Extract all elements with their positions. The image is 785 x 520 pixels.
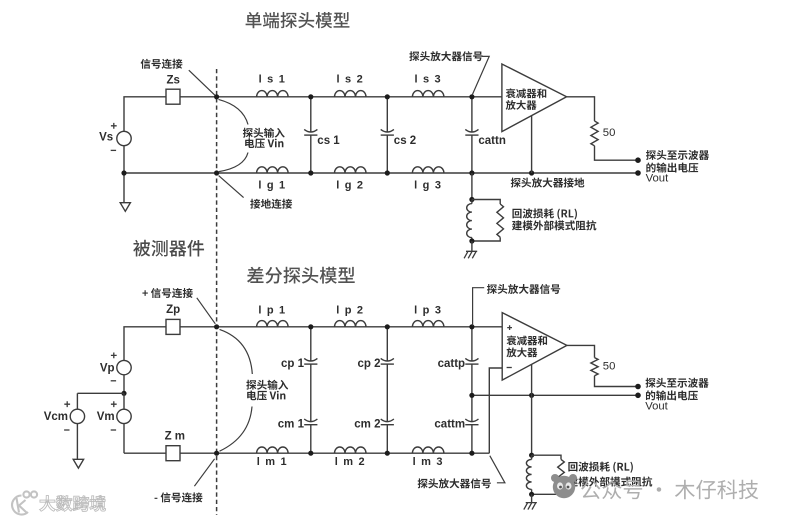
svg-text:cm 1: cm 1 <box>278 418 305 430</box>
junction (bottom rail, x=216.6) <box>214 170 219 175</box>
junction (rail2 bottom, x=387.3) <box>385 451 390 456</box>
wire: shunt stub at x=387.3 (upper) <box>386 97 388 173</box>
wire: stub to return-loss network (upper) <box>471 173 473 200</box>
svg-text:l g 1: l g 1 <box>258 179 286 191</box>
inductor RL (upper return-loss) <box>467 204 472 238</box>
svg-text:50: 50 <box>603 360 616 372</box>
voltage source Vm <box>117 409 131 423</box>
op-amp U2 衰减器和放大器 (attenuator and amplifier) <box>502 313 567 381</box>
wire: to chassis ground (lower) <box>531 494 533 502</box>
resistor 50 (lower) <box>591 358 598 376</box>
svg-text:l g 2: l g 2 <box>336 179 364 191</box>
junction (return-loss bottom, lower) <box>529 492 534 497</box>
label 回波损耗（RL）(lower) <box>568 462 633 473</box>
inductor l s 1 <box>257 91 289 97</box>
junction (mid line at catt stub) <box>469 393 474 398</box>
capacitor cattn <box>465 129 478 132</box>
inductor l p 2 <box>335 321 367 327</box>
junction (bottom rail, x=471.9) <box>469 170 474 175</box>
wire: U2 output to 50 ohm <box>567 345 595 357</box>
svg-text:cp 2: cp 2 <box>357 358 380 370</box>
wire: 50 ohm to output terminal <box>595 146 639 160</box>
label 探头输入 电压 Vin (probe input voltage, upper) <box>243 128 285 138</box>
label 放大器 (U2 line2) <box>506 347 537 357</box>
junction (bottom rail, x=387.3) <box>385 170 390 175</box>
wire: top rail Zs to amp input <box>180 96 502 98</box>
plus mark (Vcm) <box>64 401 70 407</box>
wire: bottom rail2 (Vm to Zm) <box>124 452 166 454</box>
wire: Vcm to ground arrow <box>76 424 78 460</box>
inductor l p 3 <box>412 321 444 327</box>
minus mark (Vs) <box>111 149 116 151</box>
svg-text:Zs: Zs <box>166 75 179 87</box>
brace arc lower-bottom (Vin) <box>220 407 253 452</box>
minus mark (Vp) <box>111 380 116 382</box>
svg-text:cs 2: cs 2 <box>394 135 416 147</box>
minus mark (Vm) <box>111 429 116 431</box>
inductor l m 3 <box>412 447 444 453</box>
terminal dot Vout- (upper) <box>635 170 641 176</box>
junction (bottom rail, x=531.6) <box>529 170 534 175</box>
inductor l m 1 <box>257 447 289 453</box>
label 探头放大器信号 (lower, bottom) <box>418 478 491 488</box>
svg-text:Zp: Zp <box>166 304 180 316</box>
svg-text:cs 1: cs 1 <box>317 135 340 147</box>
leader line: junction to 接地连接 <box>219 176 244 198</box>
junction (return-loss bottom, upper) <box>469 238 474 243</box>
label 回波损耗（RL）(return loss, upper) <box>512 208 577 219</box>
leader: bracket to rail2 junction <box>473 288 485 326</box>
svg-text:Vs: Vs <box>99 132 113 144</box>
impedance Zm (box) <box>166 446 180 461</box>
watermark text 大数跨境 <box>40 495 106 511</box>
label 探头输入 电压 Vin (lower) <box>246 380 288 390</box>
wire: bottom (ground) rail of single-ended model <box>124 172 638 174</box>
svg-text:cattm: cattm <box>434 418 465 430</box>
label 探头放大器接地 (probe amp ground) <box>511 178 585 188</box>
svg-text:Vp: Vp <box>100 362 115 374</box>
junction (rail2 top, x=216.6) <box>214 324 219 329</box>
voltage source Vp <box>117 360 131 374</box>
dashed boundary line between DUT and probe model <box>216 69 218 515</box>
junction (rail2 bottom, x=216.6) <box>214 451 219 456</box>
leader: - 信号连接 to junction <box>194 459 214 486</box>
label: 被测器件 (device under test) <box>133 240 204 257</box>
label 探头至示波器 (upper) <box>646 150 709 160</box>
svg-text:l s 3: l s 3 <box>414 74 441 86</box>
inductor l g 1 <box>257 167 289 173</box>
leader: dash + diagonal to top-rail junction (upper) <box>472 56 489 95</box>
wire: return-loss loop top/bottom (upper) <box>472 200 500 242</box>
svg-text:l m 2: l m 2 <box>335 456 366 468</box>
svg-text:l g 3: l g 3 <box>414 179 442 191</box>
label 的输出电压 (upper) <box>646 163 698 173</box>
watermark logo 大数跨境 (bottom-left) <box>12 491 37 514</box>
leader line: 信号连接 to junction <box>189 70 215 95</box>
op-amp U1 衰减器和放大器 (attenuator and amplifier) <box>502 64 567 132</box>
title: 差分探头模型 (differential probe model) <box>247 267 355 284</box>
ground arrow under Vcm <box>73 459 83 468</box>
voltage source Vcm <box>70 409 84 423</box>
wire: U2 minus input riser <box>489 368 502 453</box>
inductor l s 2 <box>335 91 367 97</box>
wire: Vcm top stub <box>76 393 78 409</box>
wire: shunt stub at x=310.8 (lower) <box>310 327 312 453</box>
junction (rail2 bottom, x=310.8) <box>308 451 313 456</box>
capacitor cs 1 <box>304 129 317 132</box>
svg-text:Vcm: Vcm <box>44 411 68 423</box>
brace arc upper-top (Vin) <box>219 99 249 124</box>
plus mark (Vm) <box>111 401 117 407</box>
svg-text:l s 1: l s 1 <box>259 74 286 86</box>
wire: to chassis ground (upper) <box>471 241 473 251</box>
plus mark (Vp) <box>111 353 117 359</box>
svg-text:l s 2: l s 2 <box>337 74 364 86</box>
junction (top rail, x=216.6) <box>214 94 219 99</box>
wire: rail2 Zp to amp <box>180 326 502 328</box>
junction (top rail, x=387.3) <box>385 94 390 99</box>
resistor RL (upper return-loss) <box>497 204 504 237</box>
wire: U1 output to 50 ohm <box>567 97 595 121</box>
inductor l m 2 <box>335 447 367 453</box>
chassis ground (lower) <box>524 503 537 510</box>
label 衰减器和 (U2 line1) <box>507 335 547 345</box>
inductor l g 2 <box>335 167 367 173</box>
junction (mid line at amp tap) <box>529 393 534 398</box>
junction (rail2 top, x=471.9) <box>469 324 474 329</box>
brace arc lower-top (Vin) <box>220 329 253 374</box>
ground arrow under Vs <box>120 173 130 211</box>
label - 信号连接 <box>155 492 203 502</box>
label 信号连接 (signal connection) <box>141 59 183 69</box>
title: 单端探头模型 (single-ended probe model) <box>246 12 350 28</box>
label 建模外部模式阻抗 (models external mode impedance, upper) <box>512 220 596 230</box>
minus mark (Vcm) <box>64 429 69 431</box>
svg-text:l p 1: l p 1 <box>258 305 286 317</box>
svg-text:50: 50 <box>603 127 616 139</box>
junction (Vp/Vm center) <box>121 391 126 396</box>
leader: dash + diagonal to minus riser corner <box>490 456 505 483</box>
wire: Vcm branch horizontal <box>77 392 124 394</box>
junction (return-loss top, lower) <box>529 453 534 458</box>
svg-text:l m 3: l m 3 <box>413 456 444 468</box>
junction (rail2 bottom, x=471.9) <box>469 451 474 456</box>
junction (rail2 top, x=387.3) <box>385 324 390 329</box>
chassis ground (upper) <box>464 251 477 258</box>
wire: Vm to bottom rail2 <box>123 424 125 454</box>
capacitor cp 2 <box>381 358 394 361</box>
svg-text:cattp: cattp <box>438 358 465 370</box>
junction (bottom rail, x=310.8) <box>308 170 313 175</box>
svg-text:cp 1: cp 1 <box>281 358 305 370</box>
junction (return-loss top, upper) <box>469 197 474 202</box>
capacitor cm 1 <box>304 419 317 422</box>
label + 信号连接 <box>142 288 192 298</box>
inductor l p 1 <box>257 321 289 327</box>
impedance Zs (box) <box>166 89 180 104</box>
label 探头至示波器 (lower) <box>646 378 709 388</box>
wire: return-loss loop top/bottom (lower) <box>532 455 561 494</box>
wire: center node to Vm <box>123 393 125 409</box>
svg-text:Vout: Vout <box>645 400 668 412</box>
inductor RL (lower return-loss) <box>526 459 531 489</box>
junction (top rail, x=310.8) <box>308 94 313 99</box>
wire: rail2 left (to Zp) <box>124 327 166 361</box>
resistor 50 (upper) <box>591 121 598 146</box>
resistor RL (lower return-loss) <box>558 459 565 490</box>
label 衰减器和 (U1 line1) <box>506 88 546 98</box>
minus mark (U2 input) <box>507 367 512 369</box>
wire: U2 ground tap <box>531 365 533 456</box>
voltage source Vs <box>117 131 131 145</box>
terminal dot Vout+ (upper) <box>635 157 641 163</box>
capacitor cattm <box>465 419 478 422</box>
leader: + 信号连接 to junction <box>197 298 216 324</box>
junction (top rail, x=471.9) <box>469 94 474 99</box>
wire: amp-common mid line (lower) <box>472 394 638 396</box>
inductor l s 3 <box>412 91 444 97</box>
label 接地连接 (ground connection) <box>250 199 292 209</box>
plus mark (Vs) <box>111 123 117 129</box>
junction (rail2 top, x=310.8) <box>308 324 313 329</box>
junction (bottom rail, x=124) <box>121 170 126 175</box>
wire: shunt stub at x=471.9 (lower) <box>471 327 473 453</box>
wire: U1 ground tap to bottom rail <box>531 116 533 173</box>
label 放大器 (U1 line2) <box>506 100 537 110</box>
svg-text:Z m: Z m <box>165 430 185 442</box>
wire: shunt stub at x=471.9 (upper) <box>471 97 473 173</box>
plus mark (U2 input) <box>507 325 512 330</box>
inductor l g 3 <box>412 167 444 173</box>
wire: bottom rail2 Zm to minus-input riser <box>180 452 489 454</box>
capacitor cs 2 <box>381 129 394 132</box>
impedance Zp (box) <box>166 319 180 334</box>
watermark icon (panda, bottom-right) <box>551 474 577 498</box>
wire: Vp to center node <box>123 375 125 393</box>
wire: shunt stub at x=310.8 (upper) <box>310 97 312 173</box>
label 建模外部模式阻抗 (lower) <box>568 476 652 486</box>
svg-text:Vm: Vm <box>97 411 115 423</box>
svg-text:l m 1: l m 1 <box>257 456 288 468</box>
svg-text:l p 3: l p 3 <box>414 305 442 317</box>
wire: 50 ohm to output terminal (lower) <box>595 376 639 387</box>
terminal dot Vout+ (lower) <box>635 384 641 390</box>
svg-text:cattn: cattn <box>478 135 505 147</box>
svg-text:cm 2: cm 2 <box>354 418 380 430</box>
svg-text:l p 2: l p 2 <box>336 305 364 317</box>
wire: Vs bottom to ground rail <box>123 146 125 173</box>
watermark text 公众号 · 木仔科技 <box>581 480 758 500</box>
wire: shunt stub at x=387.3 (lower) <box>386 327 388 453</box>
brace arc upper-bottom (Vin) <box>219 153 248 172</box>
capacitor cattp <box>465 358 478 361</box>
terminal dot Vout- (lower) <box>635 393 641 399</box>
wire: top rail left segment (Vs to Zs) <box>124 97 166 131</box>
label 探头放大器信号 (probe amp signal, upper) <box>409 51 482 61</box>
label 的输出电压 (lower) <box>646 390 698 400</box>
capacitor cm 2 <box>381 419 394 422</box>
svg-text:Vout: Vout <box>646 173 669 185</box>
capacitor cp 1 <box>304 358 317 361</box>
label 探头放大器信号 (lower, top) <box>487 284 560 294</box>
